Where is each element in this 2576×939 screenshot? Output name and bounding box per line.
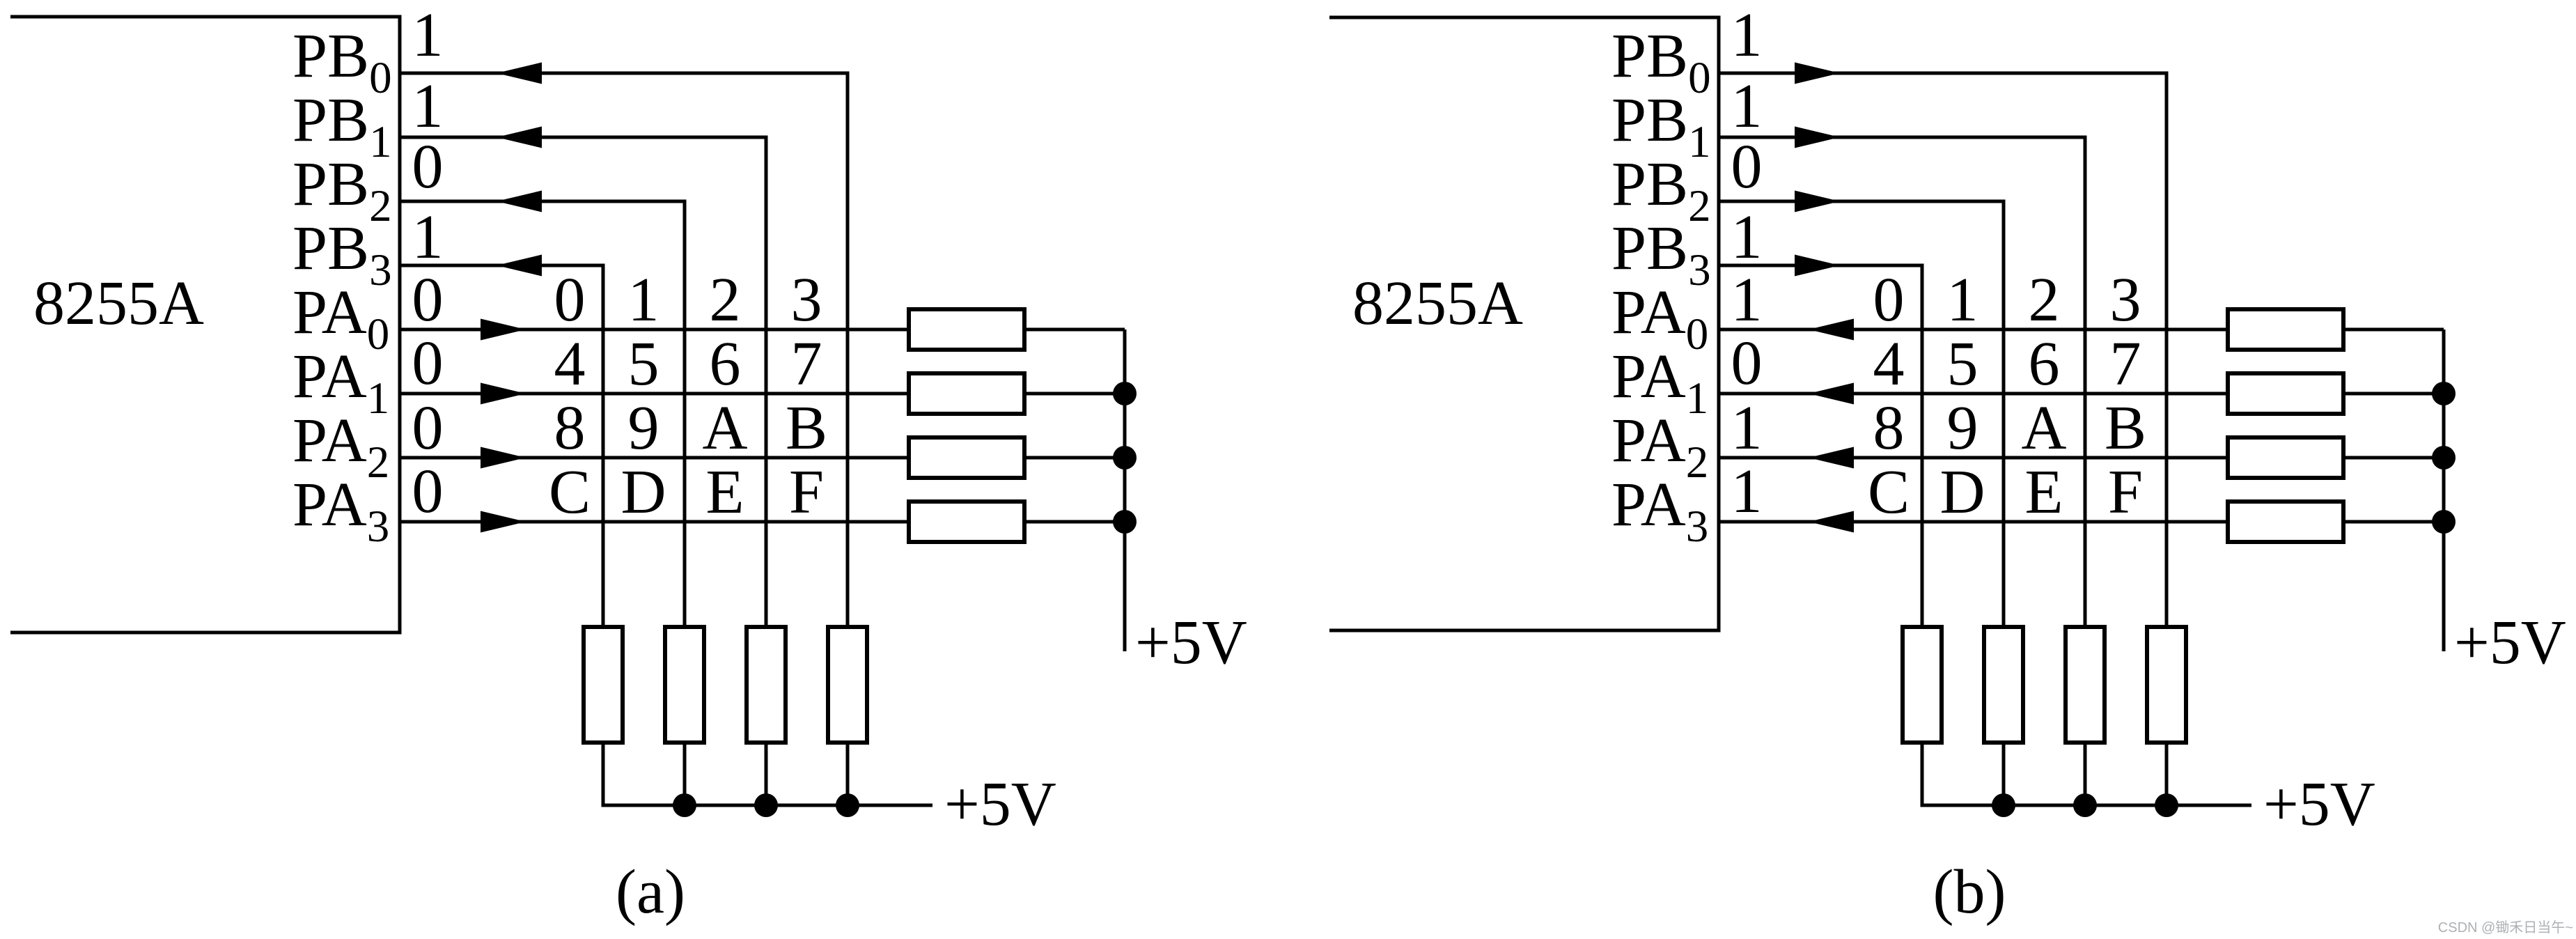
- svg-text:6: 6: [710, 329, 741, 398]
- svg-text:(b): (b): [1933, 857, 2006, 926]
- svg-text:0: 0: [412, 329, 444, 398]
- svg-text:7: 7: [791, 329, 822, 398]
- svg-text:0: 0: [412, 265, 444, 334]
- wire +5V rail (right), vertical: [2442, 329, 2446, 651]
- wire net PB2: row from chip, corner down column 2 to resistor: [400, 201, 685, 629]
- svg-text:1: 1: [1731, 72, 1763, 141]
- svg-text:1: 1: [1731, 394, 1763, 463]
- wire net PB0: row from chip, corner down column 4 to resistor: [400, 73, 848, 629]
- wire column 0 resistor to bottom +5V bus corner: [1922, 740, 2251, 805]
- svg-text:+5V: +5V: [944, 770, 1056, 839]
- junction dot column 2 at bottom +5V bus: [2073, 793, 2097, 817]
- svg-text:A: A: [703, 394, 748, 463]
- wire net PA0: row from chip through key matrix to resistor: [400, 328, 911, 332]
- resistor R14 (pull-up on key column 1): [1984, 627, 2023, 743]
- arrowhead on PA0 (points left, into 8255A): [1809, 319, 1854, 341]
- wire net PA2: row from chip through key matrix to resistor: [400, 456, 911, 460]
- junction dot column 3 at bottom +5V bus: [836, 793, 859, 817]
- svg-text:7: 7: [2110, 329, 2141, 398]
- wire column 3 resistor down to bottom +5V bus: [846, 740, 850, 805]
- arrowhead on PA1 (points right, out of 8255A): [481, 383, 526, 405]
- wire PA2 resistor to +5V rail junction: [1022, 456, 1125, 460]
- svg-text:A: A: [2022, 394, 2067, 463]
- junction dot PA3 row at +5V rail: [1113, 510, 1137, 534]
- svg-text:F: F: [789, 458, 824, 527]
- wire PA3 resistor to +5V rail junction: [1022, 520, 1125, 524]
- resistor R15 (pull-up on key column 2): [2066, 627, 2105, 743]
- junction dot PA1 row at +5V rail: [1113, 382, 1137, 405]
- arrowhead on PA0 (points right, out of 8255A): [481, 319, 526, 341]
- resistor R7 (pull-up on key column 2): [747, 627, 786, 743]
- resistor R16 (pull-up on key column 3): [2147, 627, 2186, 743]
- arrowhead on PB3 (points left, into 8255A): [497, 255, 542, 277]
- svg-text:8: 8: [554, 394, 586, 463]
- svg-text:B: B: [2105, 394, 2146, 463]
- wire net PA1: row from chip through key matrix to resistor: [400, 392, 911, 396]
- wire column 0 resistor to bottom +5V bus corner: [603, 740, 932, 805]
- wire column 1 resistor down to bottom +5V bus: [2002, 740, 2006, 805]
- svg-text:4: 4: [1873, 329, 1905, 398]
- arrowhead on PB3 (points right, out of 8255A): [1795, 255, 1840, 277]
- svg-text:3: 3: [791, 265, 822, 334]
- resistor R11 (pull-up on PA2 row): [2228, 437, 2343, 478]
- svg-text:4: 4: [554, 329, 586, 398]
- svg-text:+5V: +5V: [1135, 608, 1247, 677]
- junction dot PA3 row at +5V rail: [2432, 510, 2456, 534]
- svg-text:8255A: 8255A: [1352, 269, 1523, 338]
- wire net PB2: row from chip, corner down column 2 to resistor: [1719, 201, 2004, 629]
- svg-text:3: 3: [2110, 265, 2141, 334]
- svg-text:6: 6: [2029, 329, 2060, 398]
- svg-text:1: 1: [1731, 457, 1763, 526]
- svg-text:CSDN @锄禾日当午~: CSDN @锄禾日当午~: [2438, 919, 2573, 936]
- wire net PB1: row from chip, corner down column 3 to resistor: [1719, 137, 2085, 629]
- wire net PA0: row from chip through key matrix to resistor: [1719, 328, 2230, 332]
- svg-text:9: 9: [628, 394, 659, 463]
- svg-text:F: F: [2108, 458, 2143, 527]
- svg-text:(a): (a): [616, 857, 685, 926]
- arrowhead on PA3 (points right, out of 8255A): [481, 511, 526, 533]
- svg-text:2: 2: [710, 265, 741, 334]
- arrowhead on PB2 (points left, into 8255A): [497, 191, 542, 212]
- wire +5V rail (right), vertical: [1123, 329, 1127, 651]
- resistor R3 (pull-up on PA2 row): [909, 437, 1024, 478]
- wire net PA3: row from chip through key matrix to resistor: [400, 520, 911, 524]
- resistor R5 (pull-up on key column 0): [584, 627, 623, 743]
- svg-text:B: B: [786, 394, 827, 463]
- junction dot column 1 at bottom +5V bus: [1992, 793, 2015, 817]
- svg-text:0: 0: [412, 394, 444, 463]
- svg-text:D: D: [1940, 458, 1985, 527]
- svg-text:0: 0: [1873, 265, 1905, 334]
- svg-text:1: 1: [412, 72, 444, 141]
- svg-text:0: 0: [1731, 132, 1763, 201]
- resistor R8 (pull-up on key column 3): [828, 627, 867, 743]
- svg-text:1: 1: [1731, 203, 1763, 272]
- junction dot column 3 at bottom +5V bus: [2155, 793, 2178, 817]
- svg-text:5: 5: [1947, 329, 1978, 398]
- resistor R9 (pull-up on PA0 row): [2228, 309, 2343, 350]
- resistor R2 (pull-up on PA1 row): [909, 373, 1024, 414]
- junction dot PA2 row at +5V rail: [2432, 446, 2456, 470]
- svg-text:2: 2: [2029, 265, 2060, 334]
- svg-text:8: 8: [1873, 394, 1905, 463]
- wire net PB3: row from chip, corner down column 1 to resistor: [400, 265, 603, 629]
- arrowhead on PA1 (points left, into 8255A): [1809, 383, 1854, 405]
- wire PA3 resistor to +5V rail junction: [2341, 520, 2444, 524]
- svg-text:5: 5: [628, 329, 659, 398]
- IC U1 8255A chip outline: [10, 17, 400, 633]
- arrowhead on PB1 (points left, into 8255A): [497, 127, 542, 148]
- wire PA1 resistor to +5V rail junction: [2341, 392, 2444, 396]
- resistor R12 (pull-up on PA3 row): [2228, 502, 2343, 542]
- resistor R1 (pull-up on PA0 row): [909, 309, 1024, 350]
- wire net PB1: row from chip, corner down column 3 to resistor: [400, 137, 766, 629]
- wire net PA3: row from chip through key matrix to resistor: [1719, 520, 2230, 524]
- svg-text:1: 1: [1947, 265, 1978, 334]
- svg-text:8255A: 8255A: [33, 269, 204, 338]
- svg-text:C: C: [549, 458, 591, 527]
- svg-text:1: 1: [412, 1, 444, 70]
- wire PA1 resistor to +5V rail junction: [1022, 392, 1125, 396]
- resistor R4 (pull-up on PA3 row): [909, 502, 1024, 542]
- svg-text:D: D: [621, 458, 666, 527]
- junction dot column 2 at bottom +5V bus: [754, 793, 778, 817]
- svg-text:9: 9: [1947, 394, 1978, 463]
- arrowhead on PA2 (points left, into 8255A): [1809, 447, 1854, 469]
- wire PA0 resistor to +5V rail corner: [1022, 328, 1125, 332]
- resistor R6 (pull-up on key column 1): [665, 627, 704, 743]
- svg-text:E: E: [2025, 458, 2063, 527]
- arrowhead on PB0 (points left, into 8255A): [497, 63, 542, 84]
- junction dot PA1 row at +5V rail: [2432, 382, 2456, 405]
- wire net PB0: row from chip, corner down column 4 to resistor: [1719, 73, 2167, 629]
- wire column 1 resistor down to bottom +5V bus: [683, 740, 687, 805]
- resistor R10 (pull-up on PA1 row): [2228, 373, 2343, 414]
- svg-text:1: 1: [1731, 1, 1763, 70]
- junction dot column 1 at bottom +5V bus: [673, 793, 696, 817]
- svg-text:0: 0: [1731, 329, 1763, 398]
- arrowhead on PB2 (points right, out of 8255A): [1795, 191, 1840, 212]
- arrowhead on PB0 (points right, out of 8255A): [1795, 63, 1840, 84]
- svg-text:0: 0: [412, 132, 444, 201]
- svg-text:E: E: [706, 458, 744, 527]
- svg-text:1: 1: [412, 203, 444, 272]
- arrowhead on PB1 (points right, out of 8255A): [1795, 127, 1840, 148]
- arrowhead on PA2 (points right, out of 8255A): [481, 447, 526, 469]
- svg-text:+5V: +5V: [2454, 608, 2566, 677]
- wire net PB3: row from chip, corner down column 1 to resistor: [1719, 265, 1922, 629]
- wire net PA1: row from chip through key matrix to resistor: [1719, 392, 2230, 396]
- wire PA0 resistor to +5V rail corner: [2341, 328, 2444, 332]
- arrowhead on PA3 (points left, into 8255A): [1809, 511, 1854, 533]
- svg-text:C: C: [1868, 458, 1910, 527]
- wire column 3 resistor down to bottom +5V bus: [2165, 740, 2169, 805]
- resistor R13 (pull-up on key column 0): [1903, 627, 1942, 743]
- wire PA2 resistor to +5V rail junction: [2341, 456, 2444, 460]
- svg-text:1: 1: [1731, 265, 1763, 334]
- junction dot PA2 row at +5V rail: [1113, 446, 1137, 470]
- wire column 2 resistor down to bottom +5V bus: [765, 740, 768, 805]
- wire column 2 resistor down to bottom +5V bus: [2084, 740, 2087, 805]
- svg-text:0: 0: [554, 265, 586, 334]
- svg-text:+5V: +5V: [2263, 770, 2375, 839]
- IC U2 8255A chip outline: [1329, 17, 1719, 630]
- svg-text:0: 0: [412, 457, 444, 526]
- wire net PA2: row from chip through key matrix to resistor: [1719, 456, 2230, 460]
- svg-text:1: 1: [628, 265, 659, 334]
